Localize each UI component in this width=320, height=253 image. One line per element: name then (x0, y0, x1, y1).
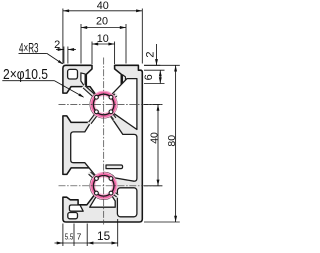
dimension 80 (height) (175, 65, 177, 222)
extension lines bottom (62, 224, 64, 247)
boss bump lobe (108, 175, 115, 182)
dimension 40 (top width) (63, 10, 142, 12)
strut boss1 NE (109, 93, 118, 102)
dimension 20 (81, 27, 126, 29)
svg-text:80: 80 (167, 135, 178, 147)
svg-text:5.5: 5.5 (65, 232, 74, 241)
boss notch (95, 177, 99, 181)
cavity: middle chamber + module2 east chamber (71, 115, 137, 181)
boss notch (109, 177, 113, 181)
boss bump lobe (93, 175, 100, 182)
extension lines top (62, 9, 64, 64)
boss notch (109, 110, 113, 114)
boss bump lobe (108, 94, 115, 101)
svg-text:7: 7 (77, 232, 82, 241)
boss notch (95, 110, 99, 114)
screw boss ring 1 (92, 92, 116, 116)
boss bump lobe (108, 108, 115, 115)
screw boss ring 2 (92, 174, 116, 198)
svg-text:10: 10 (97, 33, 109, 45)
centerline hole 2 horizontal (59, 185, 163, 187)
extrusion profile body (63, 65, 142, 222)
dimension 2 (top-right step) (156, 44, 158, 65)
strut boss1 SE (107, 110, 117, 121)
svg-text:20: 20 (96, 15, 108, 27)
dimension 2 (top-left) (56, 49, 64, 51)
hole 1 outline (phi 10.5) (93, 94, 114, 115)
boss notch (95, 191, 99, 195)
cavity: bottom-left panel groove (69, 205, 83, 211)
pink highlight ring hole 1 (93, 94, 115, 116)
boss notch (109, 95, 113, 99)
dimension 40 (hole pitch) (157, 105, 159, 186)
strut boss2 SE (109, 189, 120, 198)
dimension 5.5 / 7 / 15 (55, 242, 63, 244)
boss bump lobe (108, 190, 115, 197)
hole 2 white core (93, 176, 114, 197)
extension lines right (144, 64, 160, 66)
dimension 6 (159, 70, 161, 83)
cavity: top-left corner square hollow (68, 69, 78, 79)
hole 1 white core (93, 94, 114, 115)
boss notch (95, 95, 99, 99)
pink highlight ring hole 2 (93, 175, 115, 197)
svg-text:2: 2 (54, 39, 60, 51)
cavity: notch under top face right lip (123, 75, 126, 85)
centerline vertical through holes (103, 58, 105, 225)
stub tab above boss 2 (106, 165, 123, 169)
svg-text:40: 40 (97, 0, 109, 12)
svg-text:40: 40 (150, 132, 161, 144)
cavity: south chamber under boss 2 (90, 196, 116, 207)
cavity: right side upper chamber (module 1 east) (112, 79, 137, 130)
centerline hole 1 horizontal (59, 104, 163, 106)
cavity: notch under top face left lip (81, 73, 85, 87)
dimension 10 (slot opening) (92, 43, 115, 45)
boss bump lobe (93, 108, 100, 115)
boss bump lobe (93, 94, 100, 101)
strut boss1 NW (82, 84, 99, 100)
cavity: bottom-right box hollow (117, 188, 136, 217)
cavity: bottom-left square hollow (68, 213, 78, 219)
svg-text:2: 2 (145, 51, 157, 57)
extension lines for 2 (top-left wall) (63, 47, 65, 64)
strut boss2 NW (87, 171, 99, 182)
svg-text:15: 15 (97, 229, 111, 243)
hole 2 outline (phi 10.5) (93, 176, 114, 197)
boss bump lobe (93, 190, 100, 197)
boss notch (109, 191, 113, 195)
svg-text:6: 6 (143, 74, 155, 80)
strut boss1 SW (88, 110, 101, 125)
